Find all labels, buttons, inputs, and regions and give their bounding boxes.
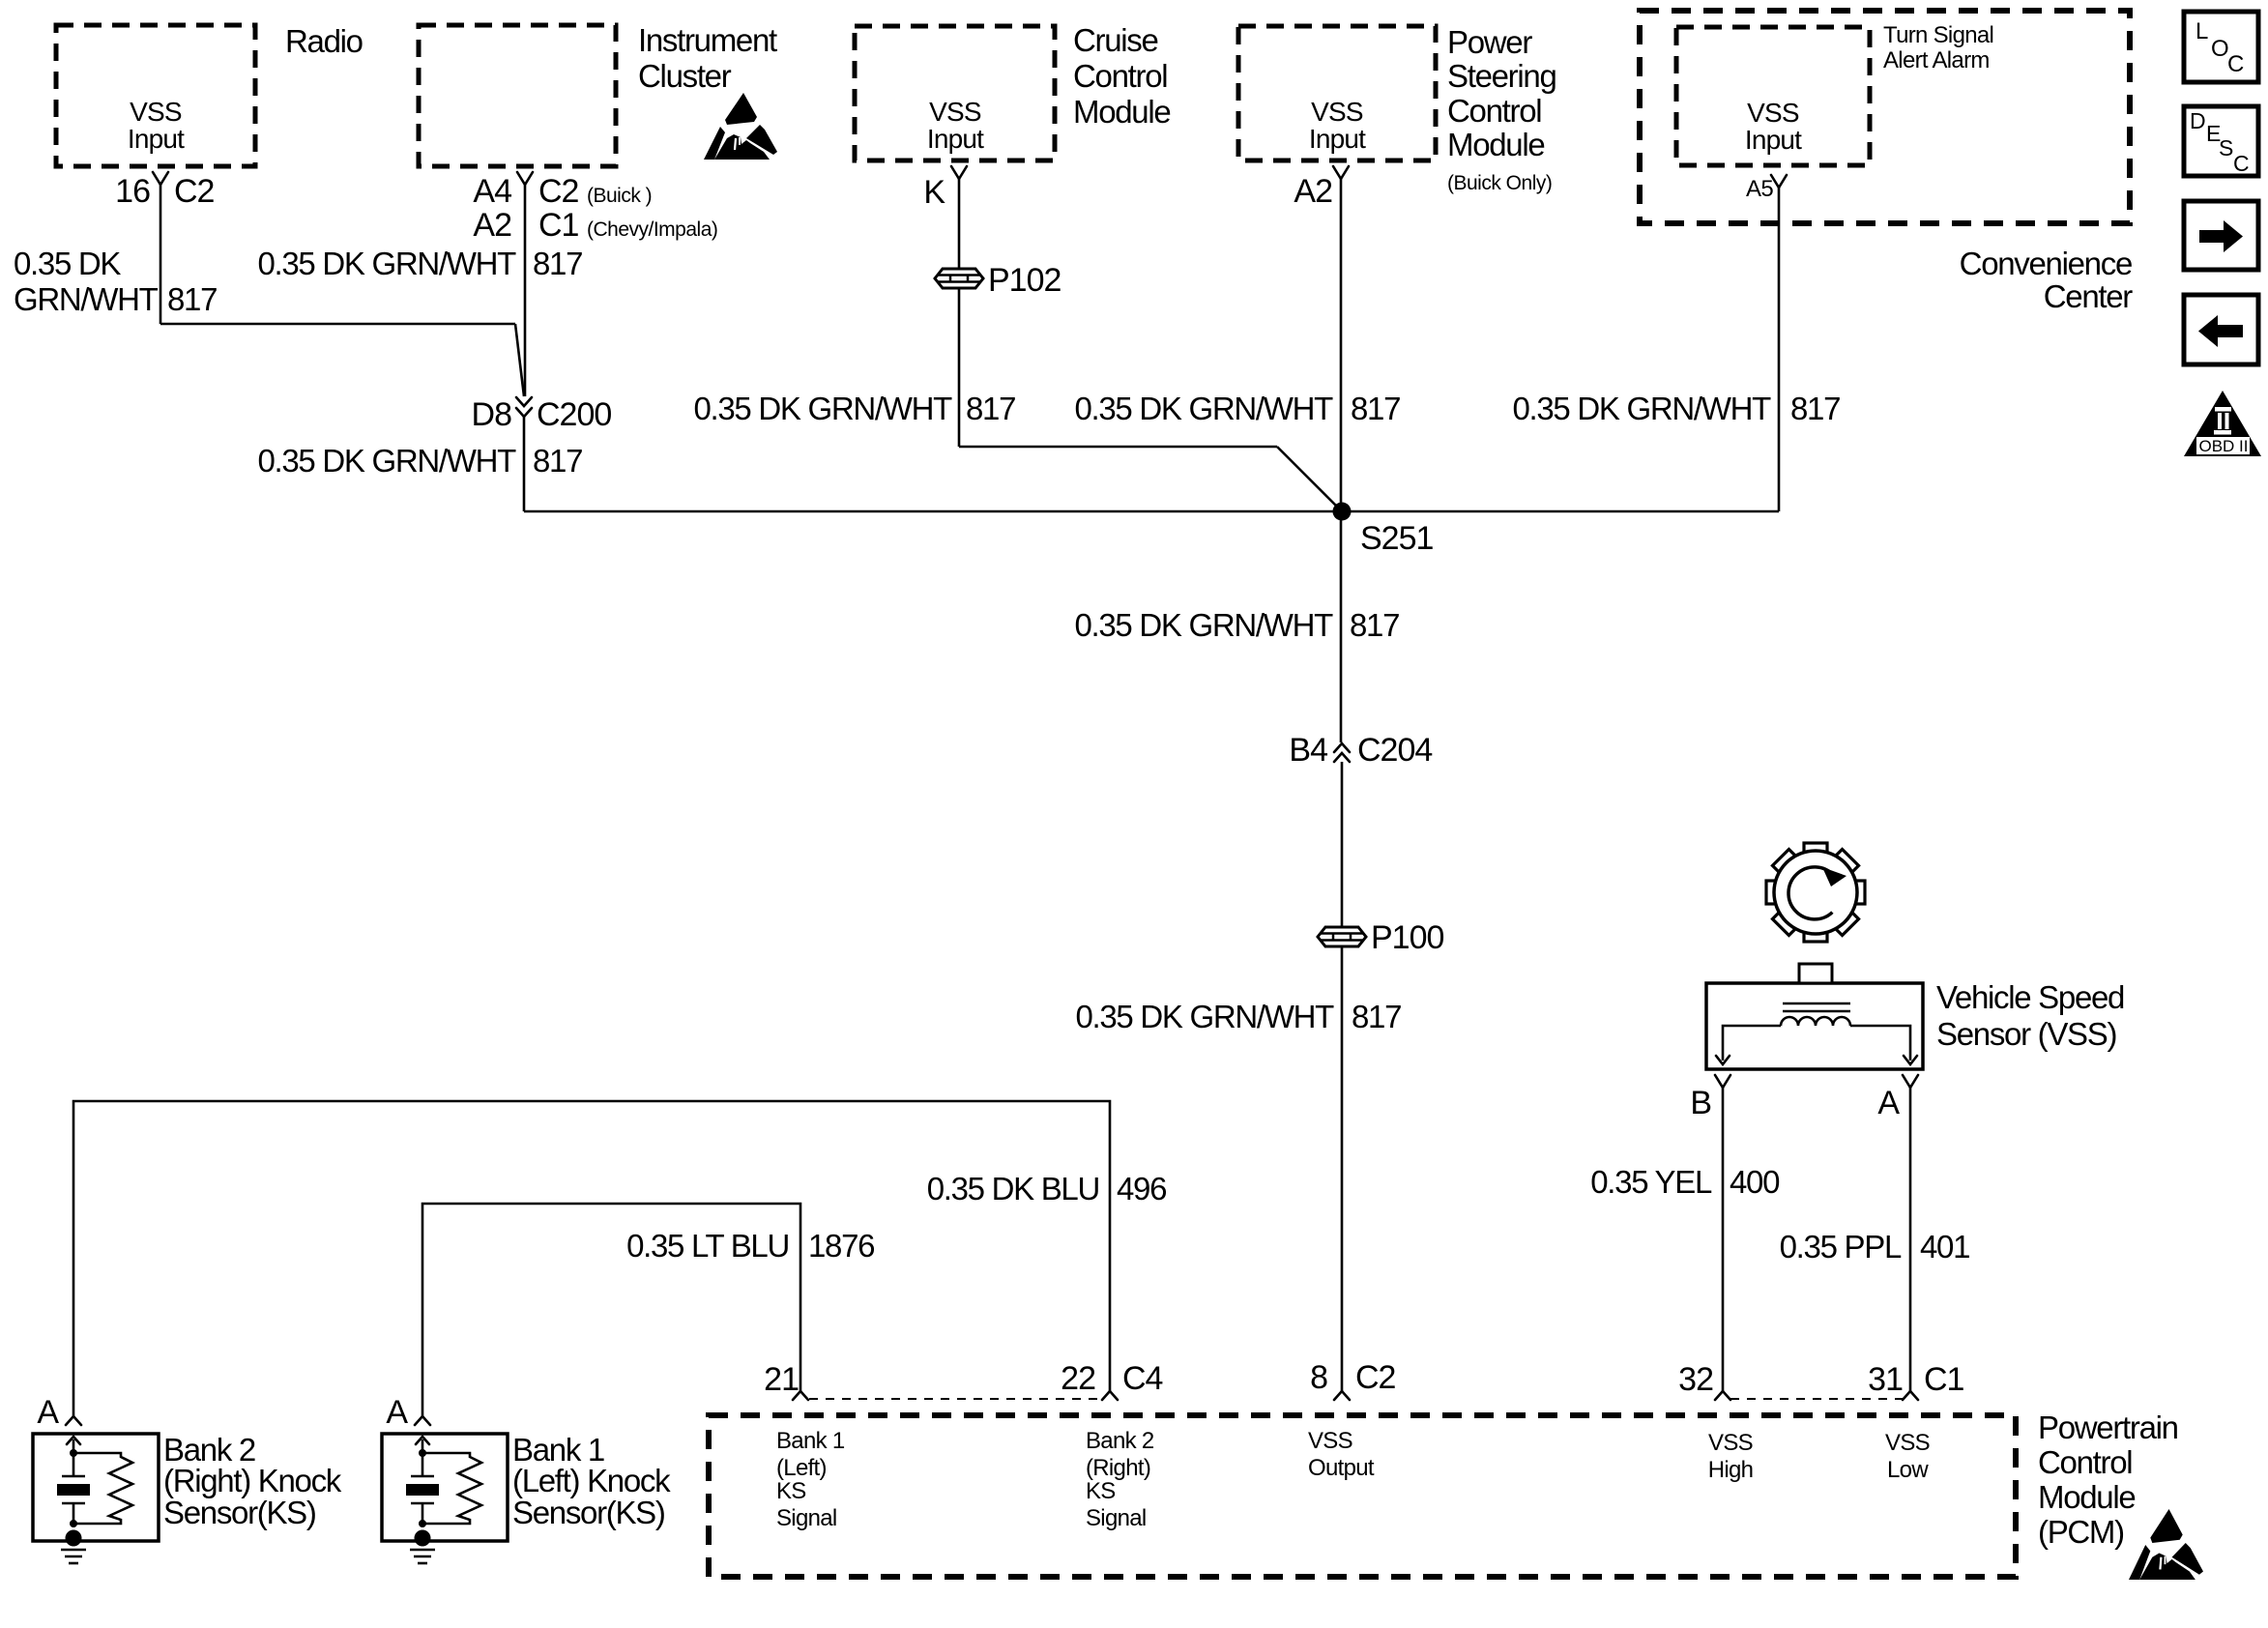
svg-text:8: 8 (1310, 1359, 1327, 1396)
pin 8 chevron (PCM) (1334, 1391, 1350, 1400)
svg-text:(PCM): (PCM) (2038, 1514, 2124, 1550)
pin A chevron (Bank 1 KS) (415, 1416, 430, 1425)
reluctor gear icon (1766, 843, 1865, 942)
svg-text:817: 817 (167, 281, 217, 317)
svg-text:16: 16 (115, 173, 150, 210)
svg-text:Turn Signal: Turn Signal (1883, 22, 1993, 48)
svg-text:0.35 YEL: 0.35 YEL (1590, 1164, 1712, 1200)
svg-text:C: C (2227, 51, 2244, 77)
Vehicle Speed Sensor (VSS) box (1706, 983, 1923, 1069)
svg-text:Cruise: Cruise (1073, 22, 1158, 58)
svg-text:(Buick Only): (Buick Only) (1447, 172, 1552, 194)
svg-text:(Right): (Right) (1086, 1455, 1150, 1481)
svg-text:C200: C200 (537, 396, 611, 433)
svg-text:A2: A2 (473, 207, 511, 244)
svg-text:Powertrain: Powertrain (2038, 1410, 2178, 1445)
svg-text:(Buick ): (Buick ) (587, 185, 652, 207)
sidebar DESC box (2184, 106, 2258, 176)
node top (70, 1449, 77, 1457)
svg-text:817: 817 (1790, 391, 1840, 426)
ESD symbol (Instrument Cluster) (704, 93, 777, 160)
svg-text:401: 401 (1920, 1229, 1969, 1265)
svg-text:Control: Control (1073, 58, 1167, 94)
Convenience Center outer dashed box (1640, 11, 2130, 223)
svg-text:P102: P102 (988, 262, 1061, 299)
svg-text:VSS: VSS (1885, 1430, 1930, 1456)
svg-text:A2: A2 (1294, 173, 1332, 210)
wire central below P100 (1341, 947, 1344, 1391)
pin K chevron (Cruise) (951, 166, 967, 179)
svg-text:21: 21 (764, 1361, 799, 1398)
svg-text:400: 400 (1730, 1164, 1780, 1200)
svg-text:Input: Input (1745, 125, 1802, 155)
svg-text:C1: C1 (538, 207, 579, 244)
svg-text:817: 817 (966, 391, 1015, 426)
wire Cruise below P102 (958, 289, 961, 447)
svg-text:Sensor(KS): Sensor(KS) (512, 1495, 665, 1530)
svg-text:Module: Module (2038, 1479, 2135, 1515)
sidebar right-arrow box (2184, 201, 2258, 270)
sidebar left-arrow box (2184, 295, 2258, 364)
svg-text:Vehicle Speed: Vehicle Speed (1936, 979, 2124, 1015)
module Cruise Control Module dashed box (855, 26, 1055, 160)
svg-text:Cluster: Cluster (638, 58, 732, 94)
wire A5 down (1778, 188, 1781, 511)
svg-text:High: High (1708, 1457, 1754, 1483)
ground dot (415, 1530, 431, 1547)
svg-text:Bank 1: Bank 1 (776, 1428, 845, 1454)
svg-text:22: 22 (1061, 1360, 1095, 1397)
svg-text:Output: Output (1308, 1455, 1375, 1481)
wire central below C204 (1341, 762, 1344, 926)
connector P102 grommet (935, 269, 983, 288)
svg-text:Convenience: Convenience (1960, 246, 2132, 281)
svg-text:B: B (1690, 1085, 1711, 1121)
svg-text:A: A (1877, 1085, 1900, 1121)
svg-text:VSS: VSS (1311, 97, 1363, 127)
wire DK BLU: Bank2 KS to PCM 22 (73, 1101, 1110, 1416)
svg-text:Module: Module (1073, 94, 1170, 130)
svg-text:Input: Input (128, 124, 185, 154)
wire S251 horizontal bus (524, 510, 1779, 513)
piezo element (422, 1453, 424, 1475)
svg-text:VSS: VSS (130, 97, 182, 127)
pin 32 chevron (PCM) (1715, 1391, 1730, 1400)
svg-text:K: K (923, 174, 945, 211)
knock sensor Bank 2 (Right) (33, 1394, 342, 1563)
wire Radio pin 16 down (160, 185, 162, 324)
svg-text:0.35 DK BLU: 0.35 DK BLU (927, 1171, 1099, 1206)
pin A chevron (VSS) (1903, 1075, 1918, 1088)
wire Cruise horizontal (959, 446, 1277, 449)
svg-text:OBD II: OBD II (2198, 437, 2248, 455)
svg-text:C4: C4 (1122, 1360, 1163, 1397)
wire Instrument Cluster pin down (524, 185, 527, 396)
svg-text:(Chevy/Impala): (Chevy/Impala) (587, 218, 717, 241)
svg-text:Sensor (VSS): Sensor (VSS) (1936, 1016, 2116, 1052)
piezo element (73, 1453, 75, 1475)
svg-text:D: D (2190, 108, 2206, 133)
internal arrow up (73, 1439, 75, 1452)
svg-text:Module: Module (1447, 127, 1544, 162)
node bottom (70, 1520, 77, 1527)
sidebar LOC box (2184, 12, 2258, 82)
wire A2 / central VSS output top segment (1340, 179, 1343, 742)
svg-text:S251: S251 (1360, 520, 1433, 557)
svg-text:0.35 LT BLU: 0.35 LT BLU (626, 1228, 789, 1264)
connector C204 double chevron up (1334, 743, 1350, 752)
svg-text:817: 817 (1352, 999, 1401, 1034)
connector C200 double chevron (516, 397, 532, 406)
svg-text:Signal: Signal (1086, 1505, 1147, 1531)
VSS internal wire left with arrow (1723, 1026, 1781, 1061)
svg-text:0.35 DK GRN/WHT: 0.35 DK GRN/WHT (1075, 999, 1334, 1034)
module Power Steering Control Module dashed box (1238, 26, 1436, 160)
svg-text:C1: C1 (1924, 1361, 1964, 1398)
svg-text:C2: C2 (174, 173, 215, 210)
Bank 1 KS box (382, 1434, 508, 1541)
splice S251 junction dot (1333, 503, 1352, 521)
wire LT BLU: Bank1 KS to PCM 21 (422, 1204, 800, 1416)
svg-text:VSS: VSS (1308, 1428, 1352, 1454)
knock sensor Bank 1 (Left) (382, 1394, 671, 1563)
svg-text:KS: KS (1086, 1478, 1116, 1504)
svg-text:(Left) Knock: (Left) Knock (512, 1463, 671, 1498)
svg-text:817: 817 (533, 246, 582, 281)
Bank 2 KS box (33, 1434, 159, 1541)
svg-text:L: L (2195, 18, 2208, 44)
svg-text:B4: B4 (1289, 732, 1327, 769)
svg-text:KS: KS (776, 1478, 806, 1504)
VSS internal wire right with arrow (1850, 1026, 1910, 1061)
svg-text:0.35 DK GRN/WHT: 0.35 DK GRN/WHT (693, 391, 952, 426)
sidebar OBD II triangle (2184, 391, 2261, 456)
ground (61, 1549, 86, 1552)
VSS coil (1781, 1017, 1850, 1026)
svg-text:P100: P100 (1371, 919, 1443, 956)
pin A5 chevron (1771, 175, 1787, 188)
node top (419, 1449, 426, 1457)
pin B chevron (VSS) (1715, 1075, 1730, 1088)
svg-text:0.35 PPL: 0.35 PPL (1780, 1229, 1902, 1265)
module Turn Signal Alert Alarm dashed box (1676, 27, 1870, 165)
ground (410, 1549, 435, 1552)
wire VSS B to PCM 32 (1722, 1088, 1725, 1391)
svg-text:(Left): (Left) (776, 1455, 827, 1481)
pin 21 chevron (PCM) (793, 1391, 808, 1400)
svg-text:A5: A5 (1746, 176, 1773, 202)
pin 22 chevron (PCM) (1102, 1391, 1118, 1400)
svg-text:32: 32 (1678, 1361, 1713, 1398)
svg-text:Steering: Steering (1447, 58, 1556, 94)
svg-text:Instrument: Instrument (638, 22, 777, 58)
node bottom (419, 1520, 426, 1527)
svg-text:C204: C204 (1357, 732, 1432, 769)
pin A chevron (Bank 2 KS) (66, 1416, 81, 1425)
internal arrow up (422, 1439, 424, 1452)
svg-text:Signal: Signal (776, 1505, 837, 1531)
svg-text:A: A (37, 1394, 59, 1431)
module Radio dashed box (56, 25, 255, 166)
svg-text:Power: Power (1447, 24, 1532, 60)
pin 16 C2 chevron (Radio) (153, 172, 168, 185)
svg-text:Control: Control (2038, 1444, 2132, 1480)
wire Cruise pin K down (958, 179, 961, 268)
svg-text:Bank 2: Bank 2 (1086, 1428, 1154, 1454)
svg-text:0.35 DK GRN/WHT: 0.35 DK GRN/WHT (1074, 607, 1333, 643)
svg-text:0.35 DK GRN/WHT: 0.35 DK GRN/WHT (257, 246, 516, 281)
svg-text:GRN/WHT: GRN/WHT (14, 281, 159, 317)
connector P100 grommet (1318, 927, 1366, 946)
svg-text:VSS: VSS (929, 97, 981, 127)
pin 31 chevron (PCM) (1903, 1391, 1918, 1400)
svg-text:817: 817 (1350, 607, 1399, 643)
svg-text:1876: 1876 (808, 1228, 874, 1264)
connector dashed link 32-31 (1730, 1398, 1903, 1400)
svg-text:Alert Alarm: Alert Alarm (1883, 47, 1990, 73)
svg-text:Sensor(KS): Sensor(KS) (163, 1495, 316, 1530)
wire below C200 (523, 417, 526, 511)
connector dashed link 21-22 (809, 1398, 1101, 1400)
module Instrument Cluster dashed box (419, 25, 616, 166)
svg-text:0.35 DK GRN/WHT: 0.35 DK GRN/WHT (1074, 391, 1333, 426)
pin A4/C2 chevron (Instrument Cluster) (517, 172, 533, 185)
svg-text:0.35 DK: 0.35 DK (14, 246, 121, 281)
wire Cruise diagonal to S251 (1277, 447, 1342, 511)
svg-text:Input: Input (927, 124, 984, 154)
wire Radio diagonal to C200 (515, 324, 524, 396)
svg-text:S: S (2219, 135, 2233, 160)
wire VSS A to PCM 31 (1909, 1088, 1912, 1391)
svg-text:(Right) Knock: (Right) Knock (163, 1463, 342, 1498)
VSS core lines (1783, 1003, 1850, 1005)
svg-text:A4: A4 (473, 173, 511, 210)
resistor branch (73, 1453, 132, 1524)
svg-text:A: A (386, 1394, 408, 1431)
svg-text:0.35 DK GRN/WHT: 0.35 DK GRN/WHT (257, 443, 516, 479)
svg-text:0.35 DK GRN/WHT: 0.35 DK GRN/WHT (1512, 391, 1771, 426)
VSS connector tab (1799, 964, 1832, 983)
wire Radio horizontal (160, 323, 515, 326)
svg-text:Control: Control (1447, 93, 1541, 129)
svg-text:O: O (2211, 36, 2229, 62)
svg-text:Center: Center (2044, 278, 2134, 314)
svg-text:Radio: Radio (285, 23, 363, 59)
svg-text:Input: Input (1309, 124, 1366, 154)
svg-text:C: C (2233, 151, 2250, 176)
svg-text:C2: C2 (538, 173, 579, 210)
ground dot (66, 1530, 82, 1547)
svg-text:31: 31 (1868, 1361, 1903, 1398)
svg-text:VSS: VSS (1747, 98, 1799, 128)
svg-text:496: 496 (1117, 1171, 1166, 1206)
resistor branch (422, 1453, 481, 1524)
pin A2 chevron (Power Steering) (1333, 166, 1349, 179)
svg-text:817: 817 (533, 443, 582, 479)
Powertrain Control Module dashed box (709, 1415, 2016, 1577)
svg-text:Low: Low (1887, 1457, 1929, 1483)
svg-text:817: 817 (1351, 391, 1400, 426)
svg-text:C2: C2 (1355, 1359, 1396, 1396)
ESD symbol (PCM) (2129, 1509, 2203, 1580)
svg-text:VSS: VSS (1708, 1430, 1753, 1456)
svg-text:D8: D8 (472, 396, 512, 433)
